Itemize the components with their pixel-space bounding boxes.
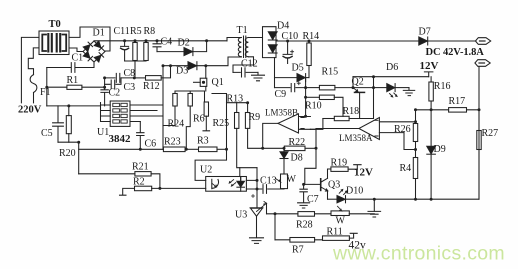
svg-text:T1: T1 — [237, 25, 248, 36]
svg-text:R21: R21 — [132, 162, 149, 173]
svg-text:R9: R9 — [249, 112, 261, 123]
wire A inv input jog — [404, 133, 416, 150]
resistor R26 — [413, 108, 417, 157]
svg-text:LM358A: LM358A — [339, 133, 373, 143]
svg-text:R11: R11 — [327, 227, 343, 238]
resistor R11 — [323, 233, 358, 240]
resistor R19 — [331, 165, 361, 172]
capacitor C10 — [283, 41, 294, 64]
diode D2 — [157, 39, 208, 55]
svg-text:R3: R3 — [197, 136, 209, 147]
svg-text:U3: U3 — [235, 210, 247, 221]
wire T0 bottom-right to bridge left — [69, 48, 83, 52]
resistor R16 — [429, 77, 433, 110]
transistor Q2 — [352, 77, 365, 119]
ground below C12 — [252, 72, 265, 80]
svg-text:C3: C3 — [124, 82, 136, 93]
node C11 rail — [123, 39, 126, 42]
svg-text:R28: R28 — [296, 220, 313, 231]
shunt regulator U3 TL431 — [250, 189, 267, 238]
output terminal 1 — [475, 38, 490, 45]
wire LM358B output — [263, 123, 278, 148]
capacitor C7 — [300, 183, 307, 203]
svg-text:W: W — [287, 174, 297, 185]
resistor R4 — [413, 158, 417, 200]
resistor R27 — [477, 110, 481, 199]
svg-text:C10: C10 — [282, 31, 299, 42]
svg-text:R19: R19 — [331, 157, 348, 168]
svg-text:12V: 12V — [354, 167, 373, 179]
op-amp U4B LM358B — [278, 114, 311, 133]
resistor R15 — [306, 85, 374, 90]
svg-text:C2: C2 — [109, 88, 121, 99]
bridge rectifier D1 — [83, 41, 105, 62]
capacitor C2 — [101, 86, 108, 106]
wire neg vertical — [46, 68, 48, 106]
wire R7 feed — [274, 214, 276, 240]
ground right of D6 — [403, 88, 414, 96]
wire AC live left — [21, 37, 39, 103]
diode D5 — [275, 74, 310, 82]
wire bottom bus — [79, 148, 164, 150]
svg-text:D7: D7 — [419, 27, 431, 38]
svg-text:D9: D9 — [434, 144, 446, 155]
wire T0 right jog over bridge — [69, 27, 110, 51]
svg-text:R10: R10 — [305, 101, 322, 112]
resistor R6 — [185, 91, 193, 151]
resistor R25 — [203, 102, 210, 131]
node C4 rail — [156, 39, 159, 42]
capacitor C5 — [53, 106, 64, 142]
svg-text:C9: C9 — [275, 89, 287, 100]
resistor R17 — [449, 108, 467, 113]
svg-text:R5: R5 — [130, 26, 142, 37]
potentiometer W bottom — [331, 206, 374, 215]
svg-text:3842: 3842 — [109, 133, 132, 145]
wire R13 R9 tops — [227, 102, 248, 104]
svg-text:R12: R12 — [143, 81, 160, 92]
diode D6 LED — [374, 84, 410, 97]
capacitor C12 — [233, 68, 258, 77]
node R5 rail — [134, 39, 137, 42]
IC U1 3842 — [101, 101, 164, 126]
wire C5 R20 top — [47, 105, 101, 107]
wire C11 R5 R8 bottom tie — [125, 61, 146, 78]
svg-text:R22: R22 — [289, 137, 306, 148]
resistor R9 — [245, 101, 262, 148]
svg-text:Q2: Q2 — [352, 77, 364, 88]
diode pair D4 — [263, 27, 278, 58]
resistor R28 — [267, 212, 332, 217]
wire U2 right pins to node — [246, 168, 257, 189]
svg-text:R6: R6 — [193, 114, 205, 125]
svg-text:D10: D10 — [346, 186, 363, 197]
svg-text:C6: C6 — [145, 139, 157, 150]
svg-text:R8: R8 — [144, 26, 156, 37]
capacitor C1 — [47, 62, 94, 72]
svg-text:220V: 220V — [18, 104, 42, 115]
svg-text:C5: C5 — [41, 128, 53, 139]
fuse F1 — [30, 75, 37, 103]
svg-text:D5: D5 — [292, 62, 304, 73]
wire U3 ref to R28 — [266, 203, 268, 214]
wire Q2 node down to R18 — [373, 77, 375, 119]
resistor R22 — [261, 129, 317, 185]
svg-text:R16: R16 — [434, 81, 451, 92]
capacitor C13 — [252, 185, 281, 198]
wire R13 into U2 LED — [239, 168, 242, 182]
svg-text:U1: U1 — [97, 127, 109, 138]
wire C5 R20 bottom — [58, 142, 79, 174]
wire 12V rail — [353, 76, 429, 78]
svg-text:R14: R14 — [303, 31, 320, 42]
svg-text:Q1: Q1 — [212, 77, 224, 88]
capacitor C8 — [103, 73, 136, 87]
capacitor C9 — [275, 82, 306, 92]
resistor R18 — [323, 116, 374, 120]
resistor R21 — [79, 172, 160, 189]
svg-text:C11: C11 — [114, 26, 130, 37]
wire Q1 source tie — [175, 91, 205, 102]
diode D8 — [280, 147, 288, 174]
wire T0 bottom-left to fuse — [28, 48, 39, 75]
capacitor C4 — [153, 41, 161, 52]
svg-text:D6: D6 — [386, 62, 398, 73]
svg-text:R2: R2 — [133, 177, 145, 188]
diode D10 LED — [328, 189, 348, 202]
svg-text:12V: 12V — [420, 60, 439, 72]
svg-text:W: W — [336, 215, 346, 226]
potentiometer W left — [276, 174, 288, 189]
wire LM358A output — [316, 128, 359, 130]
wire vertical bus x163 — [162, 66, 164, 150]
svg-text:C4: C4 — [161, 36, 173, 47]
optocoupler U2 — [206, 177, 247, 192]
svg-text:C1: C1 — [72, 52, 84, 63]
wire R18 left to op-amp inv input — [310, 119, 323, 130]
12V tap bar — [424, 72, 433, 77]
wire D9 column — [430, 110, 432, 146]
svg-text:C13: C13 — [260, 175, 277, 186]
wire 42V output rail — [276, 40, 476, 42]
wire DC+ rail primary — [94, 40, 227, 42]
resistor R24 — [163, 91, 177, 126]
diode D3 — [163, 57, 241, 70]
resistor R1 — [45, 85, 104, 89]
wire D5 node down — [305, 78, 307, 117]
svg-text:R24: R24 — [168, 118, 185, 129]
diode D9 — [427, 146, 436, 199]
svg-text:D8: D8 — [291, 153, 303, 164]
svg-text:www.cntronics.com: www.cntronics.com — [332, 243, 505, 265]
svg-text:DC 42V-1.8A: DC 42V-1.8A — [426, 47, 485, 58]
svg-text:C8: C8 — [124, 68, 136, 79]
resistor R3 — [199, 147, 227, 152]
svg-text:C12: C12 — [241, 58, 258, 69]
resistor R2 — [120, 186, 206, 195]
svg-text:D3: D3 — [176, 66, 188, 77]
svg-text:U2: U2 — [200, 165, 212, 176]
resistor R10 — [306, 95, 343, 116]
svg-text:T0: T0 — [49, 19, 61, 30]
svg-text:D1: D1 — [93, 27, 105, 38]
resistor R13 — [235, 103, 258, 168]
svg-text:R7: R7 — [292, 245, 304, 256]
transformer T1 — [227, 36, 263, 72]
transistor Q3 — [304, 169, 331, 199]
capacitor C11 — [121, 41, 129, 61]
svg-text:LM358B: LM358B — [265, 108, 298, 118]
wire bottom rail right — [346, 198, 480, 200]
wire D4 bottom down — [274, 58, 276, 88]
ground below C7 — [298, 203, 310, 208]
svg-text:R20: R20 — [59, 148, 76, 159]
wire R17 rail — [416, 109, 480, 111]
svg-text:R1: R1 — [67, 75, 79, 86]
diode D7 — [419, 37, 428, 45]
resistor R23 — [163, 147, 198, 152]
node R8 rail — [145, 39, 148, 42]
wire R3 to U2 staircase — [195, 94, 226, 181]
resistor R20 — [66, 104, 71, 142]
ground right of W — [368, 198, 381, 217]
op-amp U4A LM358A — [359, 118, 417, 140]
wire terminal2 down — [478, 67, 480, 199]
transistor Q1 MOSFET — [194, 64, 208, 91]
resistor R7 — [275, 238, 323, 243]
resistor R5 — [133, 41, 137, 61]
svg-text:F1: F1 — [40, 87, 51, 98]
output terminal 2 — [475, 60, 490, 67]
capacitor C6 — [137, 122, 144, 151]
svg-text:R15: R15 — [322, 67, 339, 78]
svg-text:R26: R26 — [394, 124, 411, 135]
transformer T0 — [39, 31, 69, 55]
resistor R8 — [144, 41, 148, 61]
svg-text:D2: D2 — [178, 37, 190, 48]
svg-text:R17: R17 — [449, 96, 466, 107]
svg-text:R4: R4 — [400, 163, 412, 174]
svg-text:R23: R23 — [164, 137, 181, 148]
svg-text:R27: R27 — [482, 128, 499, 139]
resistor R12 — [134, 64, 172, 80]
ground below U3 — [250, 238, 264, 244]
capacitor C3 — [105, 78, 121, 89]
svg-text:Q3: Q3 — [328, 179, 340, 190]
resistor R14 — [307, 41, 311, 78]
svg-text:R18: R18 — [343, 106, 360, 117]
